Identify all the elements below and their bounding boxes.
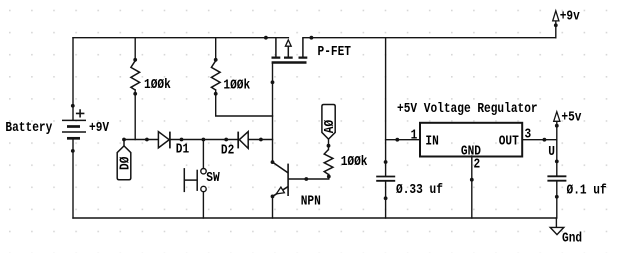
wire Gnd stem	[555, 218, 557, 227]
wire top rail right (P-FET drain to +9v)	[303, 37, 556, 39]
svg-text:Ø.33 uf: Ø.33 uf	[396, 182, 443, 198]
wire A0 lead to R3 top	[328, 139, 330, 149]
svg-text:+5v: +5v	[561, 110, 582, 126]
node battery + pin	[71, 104, 75, 108]
svg-text:P-FET: P-FET	[318, 44, 352, 60]
svg-text:+9V: +9V	[89, 120, 110, 136]
node SW tap junction	[202, 138, 206, 142]
node D1 anode pin	[145, 138, 149, 142]
wire bottom rail (ground bus)	[73, 217, 556, 219]
battery B1	[62, 109, 86, 138]
svg-text:D1: D1	[176, 142, 189, 158]
node D2 anode pin	[259, 138, 263, 142]
node regulator OUT pin	[543, 138, 547, 142]
svg-text:AØ: AØ	[322, 119, 338, 133]
svg-text:OUT: OUT	[499, 134, 519, 150]
wire R2 top lead	[215, 38, 217, 61]
svg-text:IN: IN	[425, 134, 438, 150]
svg-text:D2: D2	[221, 143, 234, 159]
svg-text:2: 2	[474, 157, 481, 173]
node C1 top pin	[384, 160, 388, 164]
svg-text:DØ: DØ	[118, 156, 134, 170]
svg-text:SW: SW	[206, 170, 220, 186]
svg-text:1ØØk: 1ØØk	[223, 78, 250, 94]
node NPN base pin	[304, 177, 308, 181]
node regulator GND pin	[470, 178, 474, 182]
wire +9v branch down to C1 top	[385, 38, 387, 177]
wire C2 bottom to ground bus	[556, 181, 558, 218]
supply arrow +5v	[554, 112, 560, 122]
svg-text:NPN: NPN	[301, 194, 321, 210]
svg-text:1ØØk: 1ØØk	[144, 77, 171, 93]
node R3 bottom pin	[327, 175, 331, 179]
node +5v pin	[555, 124, 559, 128]
supply arrow +9v	[553, 11, 559, 21]
wire +9v arrow stem	[555, 21, 557, 38]
node NPN emitter pin	[271, 195, 275, 199]
resistor R2 100k	[211, 61, 220, 90]
port D0	[117, 140, 131, 180]
node NPN collector pin	[271, 160, 275, 164]
node D1 cathode pin	[180, 138, 184, 142]
wire D1 cathode to D2 cathode	[170, 139, 238, 141]
node +9v pin	[554, 23, 558, 27]
wire left vertical (rail to battery +)	[72, 38, 74, 121]
svg-text:Battery: Battery	[5, 120, 52, 136]
wire SW top	[202, 140, 204, 169]
node battery - pin	[71, 149, 75, 153]
wire D2 anode to gate line	[248, 139, 272, 141]
node R2 bottom pin	[214, 92, 218, 96]
svg-text:1ØØk: 1ØØk	[341, 154, 368, 170]
wire SW bottom to ground bus	[202, 192, 204, 218]
node C2 bottom pin	[555, 195, 559, 199]
node D0 pin	[122, 138, 126, 142]
wire +5v node vertical to C2 top	[556, 121, 558, 176]
svg-text:3: 3	[525, 126, 532, 142]
node R1 top pin	[133, 58, 137, 62]
svg-text:+9v: +9v	[560, 9, 581, 25]
wire gate line vertical (P-FET gate to NPN collector)	[272, 64, 274, 163]
wire regulator IN from C1 node	[386, 139, 420, 141]
node P-FET drain pin	[310, 36, 314, 40]
svg-text:1: 1	[411, 127, 418, 143]
ground symbol	[550, 227, 564, 234]
port A0	[322, 105, 335, 140]
wire R2 bottom lead to gate line	[216, 90, 273, 116]
svg-text:Ø.1 uf: Ø.1 uf	[567, 183, 607, 199]
resistor R3 100k	[324, 150, 333, 175]
wire NPN emitter to ground bus	[272, 196, 274, 218]
svg-text:U: U	[548, 144, 555, 160]
wire R1 bottom lead to node row	[134, 90, 136, 140]
wire D0 node to D1 anode	[124, 139, 158, 141]
capacitor C2 0.1uf	[547, 176, 566, 180]
svg-text:+5V Voltage Regulator: +5V Voltage Regulator	[397, 101, 538, 117]
wire regulator GND pin down to ground bus	[471, 156, 473, 218]
wire C1 bottom to ground bus	[385, 181, 387, 218]
resistor R1 100k	[131, 61, 140, 90]
diode D2	[238, 132, 248, 149]
wire battery - down to bottom rail	[72, 138, 74, 218]
node R2 top pin	[214, 58, 218, 62]
node C1 bottom pin	[384, 196, 388, 200]
switch SW pushbutton	[184, 168, 206, 192]
node A0 pin	[327, 144, 331, 148]
regulator U box	[420, 123, 522, 157]
capacitor C1 0.33uf	[376, 177, 395, 181]
wire R1 top lead	[134, 38, 136, 61]
diode D1	[158, 132, 170, 149]
node P-FET gate pin	[271, 80, 275, 84]
transistor P-FET	[272, 38, 308, 63]
svg-text:Gnd: Gnd	[562, 231, 582, 247]
wire regulator OUT to +5v node	[522, 139, 557, 141]
node C2 top pin	[555, 160, 559, 164]
wire top rail left (battery + to P-FET source)	[73, 37, 288, 39]
transistor NPN	[273, 162, 307, 196]
node D2 cathode pin	[224, 138, 228, 142]
wire NPN base to R3	[306, 175, 329, 180]
node R1 bottom pin	[133, 92, 137, 96]
node regulator IN pin	[395, 138, 399, 142]
node P-FET source pin	[264, 36, 268, 40]
